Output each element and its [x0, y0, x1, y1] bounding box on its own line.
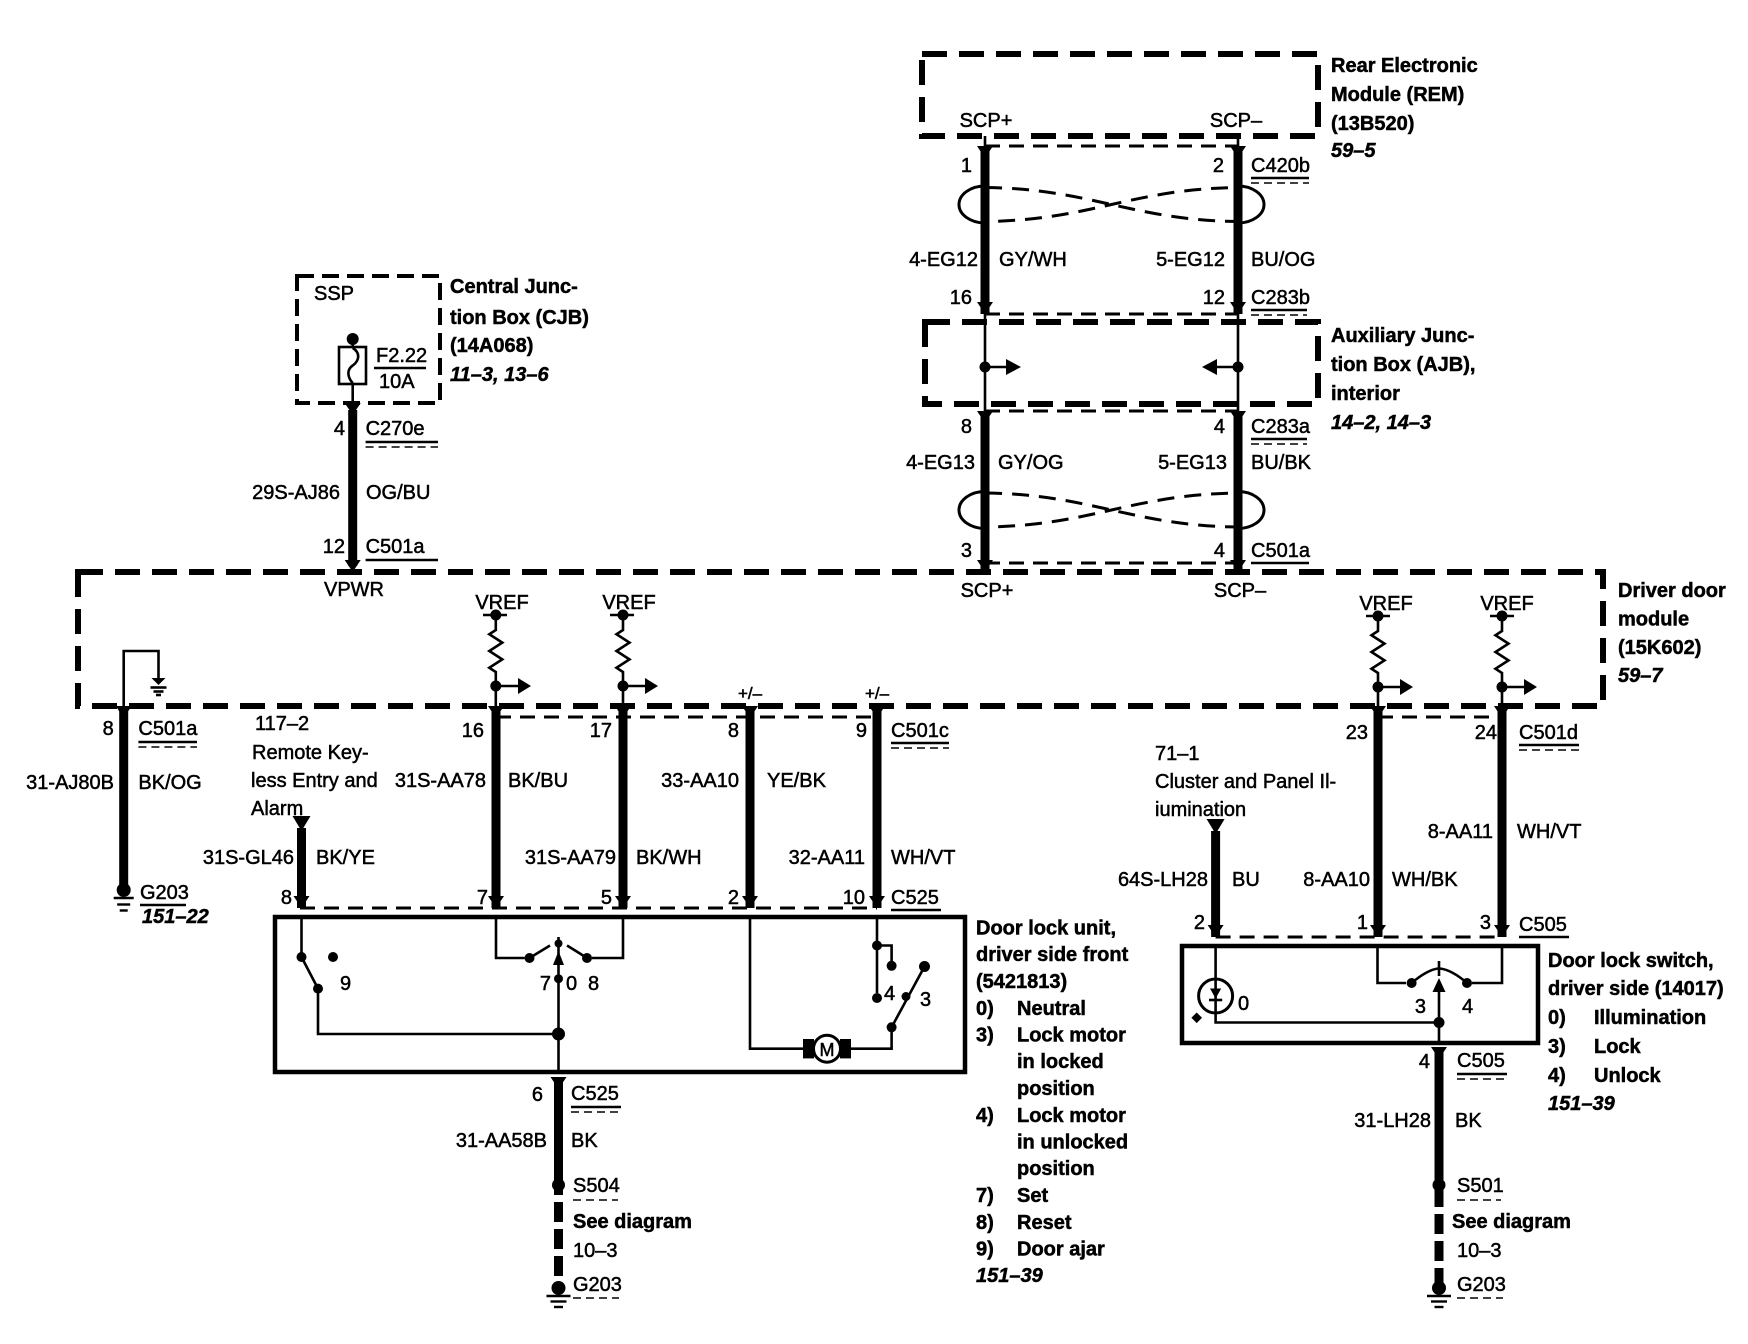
ground G203 151-22: [117, 883, 131, 897]
svg-text:iumination: iumination: [1155, 799, 1246, 821]
connector C505 dashed line: [1216, 936, 1502, 939]
svg-text:Central Junc-: Central Junc-: [450, 276, 578, 298]
wire 29S-AJ86 OG/BU: [348, 410, 357, 566]
svg-text:0): 0): [1548, 1007, 1566, 1029]
svg-text:WH/VT: WH/VT: [1517, 821, 1581, 843]
door lock switch solid box: [1182, 946, 1538, 1043]
pin 23 arrow: [1370, 706, 1386, 718]
door lock unit solid box: [275, 917, 965, 1072]
svg-text:C505: C505: [1519, 914, 1567, 936]
wire REM to C420b left: [984, 136, 987, 150]
wire 31-LH28 BK: [1435, 1049, 1444, 1160]
svg-text:14–2, 14–3: 14–2, 14–3: [1331, 412, 1431, 434]
svg-text:interior: interior: [1331, 383, 1400, 405]
svg-text:3: 3: [1480, 912, 1491, 934]
svg-text:0): 0): [976, 998, 994, 1020]
actuator arrow: [1438, 991, 1441, 1023]
svg-text:64S-LH28: 64S-LH28: [1118, 869, 1208, 891]
svg-text:Cluster and Panel Il-: Cluster and Panel Il-: [1155, 771, 1336, 793]
svg-text:SCP+: SCP+: [961, 580, 1014, 602]
svg-text:WH/VT: WH/VT: [891, 847, 955, 869]
svg-text:12: 12: [323, 536, 345, 558]
svg-text:0: 0: [1238, 993, 1249, 1015]
svg-text:See diagram: See diagram: [1452, 1211, 1571, 1233]
svg-text:4: 4: [884, 983, 895, 1005]
svg-text:6: 6: [532, 1084, 543, 1106]
svg-text:BK/OG: BK/OG: [138, 772, 201, 794]
svg-text:10–3: 10–3: [1457, 1240, 1502, 1262]
svg-text:2: 2: [728, 887, 739, 909]
rear electronic module REM dashed box: [922, 54, 1318, 136]
svg-text:Set: Set: [1017, 1185, 1048, 1207]
svg-text:Remote Key-: Remote Key-: [252, 742, 369, 764]
svg-text:Lock motor: Lock motor: [1017, 1025, 1126, 1047]
svg-text:VREF: VREF: [1359, 593, 1412, 615]
svg-text:5: 5: [601, 887, 612, 909]
svg-text:23: 23: [1346, 722, 1368, 744]
svg-text:3: 3: [1415, 996, 1426, 1018]
svg-text:(15K602): (15K602): [1618, 637, 1701, 659]
lock contact pin 1 wire: [1378, 946, 1407, 983]
wire through AJB right: [1237, 314, 1240, 411]
svg-text:24: 24: [1475, 722, 1497, 744]
svg-text:17: 17: [590, 720, 612, 742]
svg-text:tion Box (CJB): tion Box (CJB): [450, 307, 589, 329]
wire 31S-AA78 BK/BU: [492, 708, 501, 908]
motor M: [803, 1039, 814, 1058]
set-reset switch pin 7 wire: [496, 917, 525, 958]
svg-text:WH/BK: WH/BK: [1392, 869, 1458, 891]
svg-text:151–22: 151–22: [142, 906, 209, 928]
wire origin triangle illumination: [1207, 819, 1225, 834]
lock position switch blade: [892, 967, 925, 1028]
wire REM to C420b right: [1237, 136, 1240, 150]
svg-text:32-AA11: 32-AA11: [789, 847, 865, 869]
illumination LED pin 2 wire: [1214, 946, 1217, 980]
node 9 contact dot: [328, 952, 338, 962]
AJB arrow left: [980, 362, 991, 373]
svg-text:31S-GL46: 31S-GL46: [203, 847, 294, 869]
wire 5-EG12 BU/OG: [1234, 148, 1243, 314]
svg-text:C501a: C501a: [138, 718, 198, 740]
set-reset switch pivot: [557, 937, 560, 957]
wire 31S-AA79 BK/WH: [619, 708, 628, 908]
wire 8-AA10 WH/BK: [1374, 708, 1383, 937]
LED arrow diamond: [1191, 1012, 1202, 1023]
pin 8 C501a arrow: [116, 706, 132, 718]
svg-text:BK/WH: BK/WH: [636, 847, 702, 869]
svg-text:C501c: C501c: [891, 720, 949, 742]
svg-text:31-LH28: 31-LH28: [1354, 1110, 1431, 1132]
svg-text:in unlocked: in unlocked: [1017, 1132, 1128, 1154]
svg-text:10: 10: [843, 887, 865, 909]
svg-text:10–3: 10–3: [573, 1240, 618, 1262]
wire junction to pin 6: [557, 1034, 560, 1072]
svg-text:GY/WH: GY/WH: [999, 249, 1067, 271]
svg-text:Driver door: Driver door: [1618, 580, 1726, 602]
wire 4-EG12 GY/WH: [981, 148, 990, 314]
AJB arrow right: [1233, 362, 1244, 373]
svg-text:BU: BU: [1232, 869, 1260, 891]
svg-text:VREF: VREF: [475, 592, 528, 614]
auxiliary junction box AJB dashed box: [925, 322, 1318, 404]
svg-text:1: 1: [961, 155, 972, 177]
svg-text:C420b: C420b: [1251, 155, 1310, 177]
svg-text:2: 2: [1213, 155, 1224, 177]
svg-text:151–39: 151–39: [976, 1265, 1044, 1287]
svg-text:3): 3): [976, 1025, 994, 1047]
svg-text:9: 9: [856, 720, 867, 742]
wire 8-AA11 WH/VT: [1498, 708, 1507, 937]
driver door module dashed box: [78, 572, 1603, 706]
svg-text:29S-AJ86: 29S-AJ86: [252, 482, 340, 504]
svg-text:5-EG12: 5-EG12: [1156, 249, 1225, 271]
svg-text:Module (REM): Module (REM): [1331, 84, 1464, 106]
svg-text:4): 4): [1548, 1065, 1566, 1087]
svg-text:1: 1: [1357, 912, 1368, 934]
fuse F2.22 10A: [347, 333, 359, 345]
pin 10 wire and contacts: [876, 917, 879, 993]
connector C525 dashed line: [300, 907, 877, 910]
svg-text:BK/BU: BK/BU: [508, 770, 568, 792]
LED lamp symbol: [1199, 979, 1233, 1013]
pin 24 arrow: [1494, 706, 1510, 718]
wire 32-AA11 WH/VT: [873, 708, 882, 908]
svg-text:151–39: 151–39: [1548, 1093, 1616, 1115]
svg-text:G203: G203: [140, 882, 189, 904]
svg-text:See diagram: See diagram: [573, 1211, 692, 1233]
svg-text:3): 3): [1548, 1036, 1566, 1058]
svg-text:8-AA11: 8-AA11: [1428, 821, 1493, 843]
svg-text:Illumination: Illumination: [1594, 1007, 1706, 1029]
svg-text:2: 2: [1194, 912, 1205, 934]
svg-text:BK: BK: [1455, 1110, 1482, 1132]
svg-text:8: 8: [103, 718, 114, 740]
svg-text:C501a: C501a: [366, 536, 426, 558]
svg-text:31-AJ80B: 31-AJ80B: [26, 772, 114, 794]
twisted pair symbol upper: [959, 186, 985, 223]
svg-text:7: 7: [540, 973, 551, 995]
svg-text:8: 8: [281, 887, 292, 909]
svg-text:4-EG13: 4-EG13: [906, 452, 975, 474]
svg-text:BK: BK: [571, 1130, 598, 1152]
svg-text:8: 8: [728, 720, 739, 742]
svg-text:9: 9: [340, 973, 351, 995]
svg-text:driver side (14017): driver side (14017): [1548, 978, 1724, 1000]
wire junction to pin 4: [1438, 1023, 1441, 1044]
wire 31S-GL46 BK/YE: [297, 828, 306, 908]
wire 5-EG13 BU/BK: [1234, 413, 1243, 572]
svg-text:(14A068): (14A068): [450, 335, 533, 357]
svg-text:BK/YE: BK/YE: [316, 847, 375, 869]
module internal ground wire: [124, 651, 159, 706]
svg-text:7: 7: [477, 887, 488, 909]
door ajar switch blade: [302, 957, 319, 989]
wire origin triangle alarm: [293, 816, 311, 831]
svg-text:module: module: [1618, 609, 1689, 631]
svg-text:position: position: [1017, 1158, 1095, 1180]
svg-text:S501: S501: [1457, 1175, 1504, 1197]
svg-text:12: 12: [1203, 287, 1225, 309]
svg-text:+/–: +/–: [865, 684, 890, 703]
svg-text:C525: C525: [571, 1083, 619, 1105]
svg-text:4: 4: [1462, 996, 1473, 1018]
svg-text:G203: G203: [573, 1274, 622, 1296]
svg-text:VREF: VREF: [1480, 593, 1533, 615]
wire LED to common junction: [1216, 1013, 1439, 1023]
pin 17 arrow: [615, 706, 631, 718]
svg-text:59–5: 59–5: [1331, 140, 1376, 162]
svg-text:4: 4: [1419, 1051, 1430, 1073]
pin 9 arrow: [869, 706, 885, 718]
svg-text:tion Box (AJB),: tion Box (AJB),: [1331, 354, 1475, 376]
connector C501d dashed line: [1378, 716, 1502, 719]
svg-text:C505: C505: [1457, 1050, 1505, 1072]
svg-text:0: 0: [566, 973, 577, 995]
pin 6 C525 arrow: [551, 1077, 567, 1089]
svg-text:5-EG13: 5-EG13: [1158, 452, 1227, 474]
svg-text:+/–: +/–: [738, 684, 763, 703]
svg-text:SCP+: SCP+: [960, 110, 1013, 132]
svg-text:31S-AA78: 31S-AA78: [395, 770, 486, 792]
connector C283a dashed line: [985, 410, 1238, 413]
pin 16 arrow: [488, 706, 504, 718]
wire 64S-LH28 BU: [1211, 831, 1220, 937]
svg-text:Rear Electronic: Rear Electronic: [1331, 55, 1478, 77]
wire fuse to C270e: [351, 384, 354, 414]
svg-text:(5421813): (5421813): [976, 971, 1067, 993]
svg-text:(13B520): (13B520): [1331, 113, 1414, 135]
wire through AJB left: [984, 314, 987, 411]
svg-text:SSP: SSP: [314, 283, 354, 305]
svg-text:Reset: Reset: [1017, 1212, 1072, 1234]
svg-text:SCP–: SCP–: [1210, 110, 1263, 132]
svg-text:F2.22: F2.22: [376, 345, 427, 367]
svg-text:Door lock unit,: Door lock unit,: [976, 918, 1116, 940]
svg-text:C270e: C270e: [366, 418, 425, 440]
svg-text:8: 8: [588, 973, 599, 995]
svg-text:Door ajar: Door ajar: [1017, 1239, 1105, 1261]
wire 33-AA10 YE/BK: [746, 708, 755, 908]
central junction box SSP dashed box: [297, 276, 440, 403]
svg-text:Lock: Lock: [1594, 1036, 1642, 1058]
svg-text:Auxiliary Junc-: Auxiliary Junc-: [1331, 325, 1474, 347]
svg-text:C501a: C501a: [1251, 540, 1311, 562]
set-reset actuator arrow: [557, 964, 560, 1034]
svg-text:BU/OG: BU/OG: [1251, 249, 1315, 271]
svg-text:position: position: [1017, 1078, 1095, 1100]
ground G203 right: [1432, 1281, 1446, 1295]
svg-text:C525: C525: [891, 887, 939, 909]
connector C283b dashed line: [985, 313, 1238, 316]
svg-text:Lock motor: Lock motor: [1017, 1105, 1126, 1127]
splice S504: [552, 1179, 565, 1192]
pin 4 C505 arrow: [1431, 1047, 1447, 1059]
connector C420b dashed line: [985, 145, 1238, 148]
svg-text:11–3, 13–6: 11–3, 13–6: [450, 364, 549, 386]
svg-text:8-AA10: 8-AA10: [1303, 869, 1370, 891]
svg-text:C283a: C283a: [1251, 416, 1311, 438]
wire blade to common junction: [318, 989, 559, 1034]
svg-text:59–7: 59–7: [1618, 665, 1663, 687]
svg-text:M: M: [820, 1040, 835, 1060]
svg-text:16: 16: [950, 287, 972, 309]
dashed continuation wire to G203: [554, 1175, 563, 1284]
svg-text:Door lock switch,: Door lock switch,: [1548, 950, 1714, 972]
svg-text:in locked: in locked: [1017, 1051, 1104, 1073]
wire motor to lock switch: [851, 1032, 892, 1049]
svg-text:4: 4: [1214, 416, 1225, 438]
dashed continuation wire to G203: [1435, 1160, 1444, 1284]
twisted pair symbol lower: [959, 492, 985, 529]
svg-text:4): 4): [976, 1105, 994, 1127]
svg-text:SCP–: SCP–: [1214, 580, 1267, 602]
svg-text:VPWR: VPWR: [324, 579, 384, 601]
svg-text:YE/BK: YE/BK: [767, 770, 827, 792]
connector C501a dashed line: [985, 562, 1238, 565]
svg-text:8): 8): [976, 1212, 994, 1234]
door ajar switch contact pin 8: [300, 917, 303, 955]
svg-text:Unlock: Unlock: [1594, 1065, 1662, 1087]
svg-text:9): 9): [976, 1239, 994, 1261]
svg-text:S504: S504: [573, 1175, 620, 1197]
svg-text:Neutral: Neutral: [1017, 998, 1086, 1020]
module internal ground symbol: [152, 678, 166, 685]
svg-text:BU/BK: BU/BK: [1251, 452, 1312, 474]
svg-text:less Entry and: less Entry and: [251, 770, 378, 792]
ground G203 left: [552, 1281, 566, 1295]
lock motor feed pin 2 wire: [750, 917, 806, 1049]
wire 31-AA58B BK: [554, 1079, 563, 1175]
svg-text:3: 3: [920, 989, 931, 1011]
wire 4-EG13 GY/OG: [981, 413, 990, 572]
svg-text:10A: 10A: [379, 371, 415, 393]
set-reset switch pin 5 wire: [592, 917, 623, 958]
switch pivot: [1438, 961, 1441, 976]
svg-text:7): 7): [976, 1185, 994, 1207]
wire 31-AJ80B BK/CG: [119, 708, 128, 886]
svg-text:G203: G203: [1457, 1274, 1506, 1296]
pin 8 arrow: [742, 706, 758, 718]
svg-text:4: 4: [334, 418, 345, 440]
svg-text:C283b: C283b: [1251, 287, 1310, 309]
svg-text:4: 4: [1214, 540, 1225, 562]
splice S501: [1433, 1179, 1446, 1192]
svg-text:4-EG12: 4-EG12: [909, 249, 978, 271]
svg-text:8: 8: [961, 416, 972, 438]
svg-text:driver side front: driver side front: [976, 944, 1129, 966]
svg-text:3: 3: [961, 540, 972, 562]
svg-text:71–1: 71–1: [1155, 743, 1200, 765]
svg-text:31-AA58B: 31-AA58B: [456, 1130, 547, 1152]
svg-text:33-AA10: 33-AA10: [661, 770, 739, 792]
svg-text:117–2: 117–2: [255, 713, 309, 735]
svg-text:VREF: VREF: [602, 592, 655, 614]
svg-text:OG/BU: OG/BU: [366, 482, 430, 504]
svg-text:31S-AA79: 31S-AA79: [525, 847, 616, 869]
svg-text:C501d: C501d: [1519, 722, 1578, 744]
connector C501c dashed line: [496, 716, 877, 719]
unlock contact pin 3 wire: [1472, 946, 1502, 983]
svg-text:GY/OG: GY/OG: [998, 452, 1064, 474]
svg-text:16: 16: [462, 720, 484, 742]
